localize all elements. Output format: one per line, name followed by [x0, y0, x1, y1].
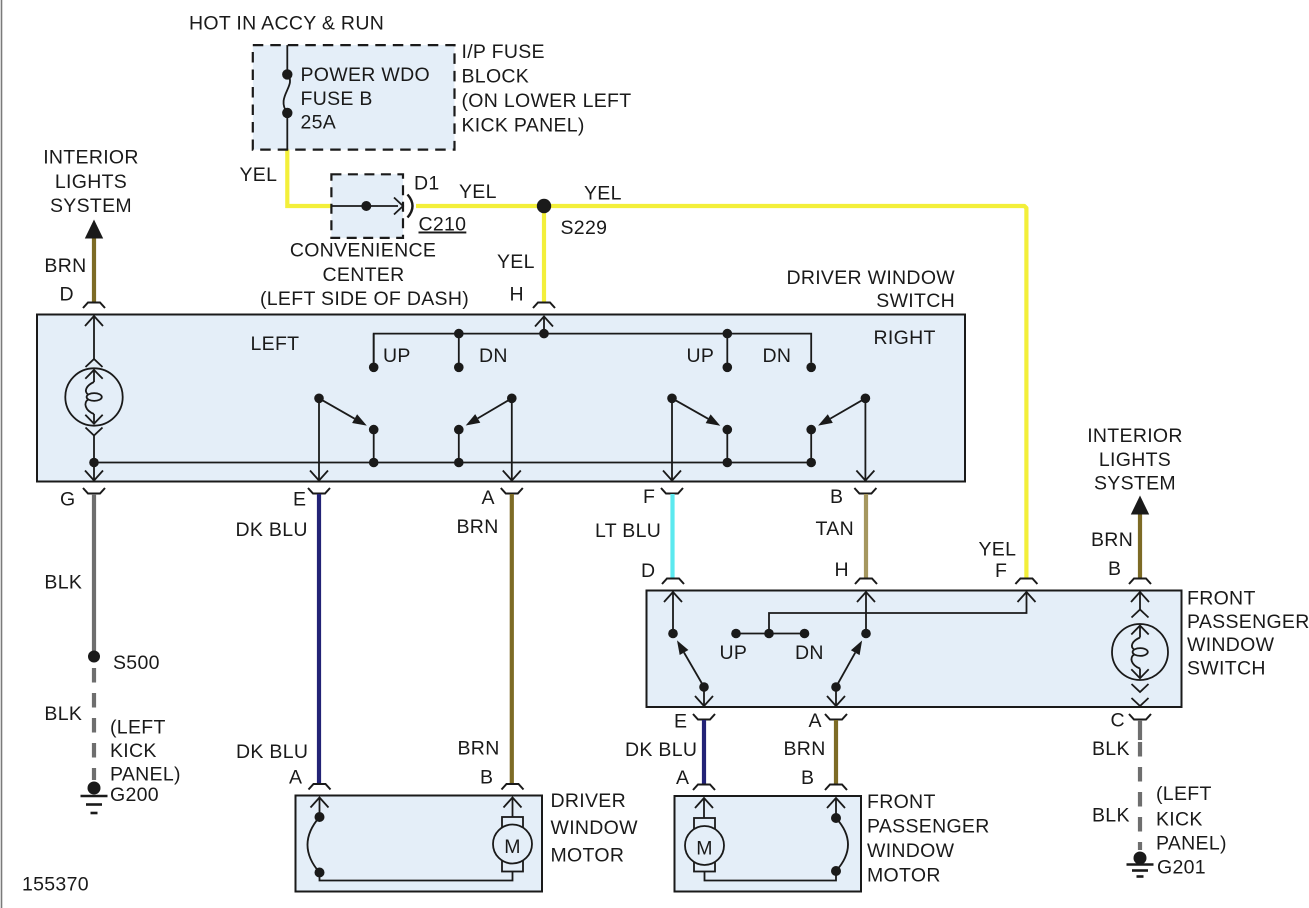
- pin B connector hat (passenger motor): [825, 785, 847, 791]
- switch SW2 throw dot: [454, 425, 464, 435]
- switch SW1 wire to pin E: [318, 398, 320, 479]
- pin C connector hat (passenger switch bottom): [1129, 714, 1151, 720]
- wire LT BLU driver switch pin F to passenger switch pin D: [670, 494, 674, 578]
- pin G connector hat (driver switch bottom): [83, 488, 105, 494]
- svg-text:(LEFT: (LEFT: [110, 717, 166, 739]
- pin H connector hat (passenger switch top): [855, 579, 877, 585]
- pin F connector hat (passenger switch top): [1015, 579, 1037, 585]
- pin A wire to motor M2: [703, 798, 705, 818]
- pin F entry arrow: [1018, 592, 1036, 602]
- off-page arrow to interior lights system (right): [1131, 496, 1149, 515]
- svg-text:LIGHTS: LIGHTS: [55, 171, 127, 193]
- motor M2 circle: [685, 826, 724, 865]
- switch SW3 wire to pin F: [671, 398, 673, 479]
- svg-text:(ON LOWER LEFT: (ON LOWER LEFT: [462, 90, 632, 112]
- switch SW2 wire to pin A: [511, 398, 513, 479]
- left DN contact drop wire: [458, 334, 460, 368]
- pin B wire to motor M1: [512, 798, 514, 818]
- switch SW2 throw wire to ground bus: [458, 430, 460, 463]
- pin B connector hat (driver motor): [502, 784, 524, 790]
- svg-text:MOTOR: MOTOR: [867, 865, 941, 887]
- svg-text:DN: DN: [795, 642, 824, 664]
- pin A exit arrow: [827, 696, 845, 706]
- lamp filament loop (passenger): [1133, 648, 1148, 656]
- lamp filament loop: [87, 393, 102, 401]
- pin D entry arrow: [664, 592, 682, 602]
- pin D wire to contact: [672, 592, 674, 634]
- svg-text:KICK: KICK: [1156, 809, 1203, 831]
- svg-text:HOT IN ACCY & RUN: HOT IN ACCY & RUN: [189, 13, 384, 35]
- svg-text:YEL: YEL: [459, 181, 497, 203]
- svg-text:BRN: BRN: [457, 516, 499, 538]
- switch SW5 arm (passenger left): [684, 653, 704, 688]
- wire BLK dashed S500 to G200: [92, 668, 96, 780]
- svg-text:BLK: BLK: [1092, 738, 1130, 760]
- switch SW1 pivot dot (pin E): [314, 394, 324, 404]
- connector C210 female socket arc: [408, 195, 413, 218]
- DN contact dot (passenger): [800, 629, 810, 639]
- svg-text:G200: G200: [110, 784, 159, 806]
- UP/DN contact bar wire (passenger): [736, 633, 805, 635]
- brush dot lower (driver motor): [315, 868, 325, 878]
- off-page arrow to interior lights system (left): [85, 220, 103, 239]
- junction dot SW4 on ground bus: [806, 458, 816, 468]
- pin E connector hat (driver switch bottom): [308, 488, 330, 494]
- lamp internal wire lower: [93, 414, 95, 424]
- motor M2 armature rectangle: [694, 818, 715, 872]
- lamp internal up arrowhead: [85, 370, 102, 379]
- pin B connector hat (passenger switch top): [1129, 579, 1151, 585]
- svg-text:CONVENIENCE: CONVENIENCE: [290, 240, 436, 262]
- pin B exit arrow: [856, 471, 874, 481]
- front passenger window motor box: [675, 796, 862, 892]
- pin H feed wire with entry arrow: [543, 317, 545, 334]
- svg-text:KICK: KICK: [110, 740, 157, 762]
- ground G200 bar 3: [91, 812, 98, 815]
- svg-text:A: A: [289, 767, 302, 789]
- svg-text:25A: 25A: [301, 112, 337, 134]
- wire pin B to lamp: [1139, 592, 1141, 610]
- svg-text:WINDOW: WINDOW: [867, 840, 955, 862]
- svg-text:C210: C210: [419, 214, 467, 236]
- svg-text:SWITCH: SWITCH: [1187, 658, 1266, 680]
- switch SW5 wire to pin E with exit arrow: [703, 687, 705, 705]
- switch SW4 wire to pin B: [864, 398, 866, 479]
- svg-text:UP: UP: [383, 345, 411, 367]
- lamp feed wire from pin D: [93, 316, 95, 360]
- supply bus wire inside driver switch: [374, 334, 812, 363]
- pin C exit chevron: [1132, 698, 1149, 706]
- ground bus wire inside driver switch: [94, 462, 811, 464]
- driver window switch box: [37, 315, 965, 482]
- svg-text:CENTER: CENTER: [323, 264, 405, 286]
- svg-text:PASSENGER: PASSENGER: [867, 816, 990, 838]
- svg-text:SYSTEM: SYSTEM: [50, 195, 132, 217]
- lamp internal down arrowhead (passenger): [1131, 669, 1148, 678]
- pin G exit arrow: [85, 471, 103, 481]
- UP contact dot (passenger): [731, 629, 741, 639]
- svg-text:A: A: [676, 767, 689, 789]
- chevron below lamp: [86, 428, 103, 436]
- svg-text:I/P FUSE: I/P FUSE: [462, 41, 545, 63]
- lamp filament upper curl: [86, 382, 94, 395]
- chevron below lamp (passenger): [1132, 684, 1149, 692]
- svg-text:DN: DN: [479, 345, 508, 367]
- svg-text:DRIVER: DRIVER: [551, 790, 626, 812]
- svg-text:S500: S500: [113, 652, 160, 674]
- svg-text:SWITCH: SWITCH: [876, 290, 955, 312]
- pin E exit arrow: [310, 471, 328, 481]
- svg-text:YEL: YEL: [979, 539, 1017, 561]
- wire BRN passenger switch pin A to passenger motor pin B: [834, 720, 838, 784]
- svg-text:C: C: [1111, 710, 1125, 732]
- pin D connector hat (passenger switch top): [662, 579, 684, 585]
- ground G201 bar 1: [1127, 863, 1154, 866]
- svg-text:PANEL): PANEL): [110, 764, 181, 786]
- svg-text:YEL: YEL: [497, 251, 535, 273]
- wire YEL: S229 right then down to passenger switch pin F: [544, 206, 1026, 578]
- svg-text:B: B: [480, 767, 493, 789]
- lamp internal wire upper: [93, 370, 95, 383]
- svg-text:BLK: BLK: [1092, 805, 1130, 827]
- commutator arc (passenger motor): [836, 818, 848, 871]
- front passenger window switch box: [647, 591, 1182, 708]
- switch SW3 arm: [672, 398, 708, 419]
- svg-text:INTERIOR: INTERIOR: [1087, 425, 1183, 447]
- switch SW6 pivot dot: [831, 682, 841, 692]
- pin D entry arrow: [85, 316, 103, 326]
- pin A connector hat (driver motor): [309, 784, 331, 790]
- svg-text:E: E: [674, 711, 687, 733]
- wire inside convenience center: [331, 205, 398, 207]
- svg-text:INTERIOR: INTERIOR: [43, 147, 139, 169]
- pin B entry arrow (driver motor): [504, 798, 522, 808]
- switch SW1 throw dot: [369, 425, 379, 435]
- lamp filament upper curl (passenger): [1132, 638, 1140, 650]
- contact dot H: [861, 629, 871, 639]
- svg-text:FRONT: FRONT: [867, 791, 936, 813]
- svg-text:F: F: [995, 560, 1007, 582]
- center junction dot UP/DN bar: [764, 629, 774, 639]
- wire BRN to interior lights (left): [92, 239, 96, 303]
- ground G201 dot: [1134, 852, 1147, 865]
- wire YEL: fuse output down then right to convenience center: [287, 150, 331, 207]
- junction dot lamp-bus: [89, 458, 99, 468]
- switch SW2 arm arrowhead: [466, 414, 481, 425]
- svg-text:FUSE B: FUSE B: [301, 88, 373, 110]
- pin H connector hat (driver switch top): [533, 303, 555, 309]
- driver window motor box: [296, 796, 543, 892]
- svg-text:UP: UP: [687, 345, 715, 367]
- junction dot UP-right on supply bus: [723, 329, 733, 339]
- svg-text:G201: G201: [1157, 857, 1206, 879]
- svg-text:WINDOW: WINDOW: [1187, 634, 1275, 656]
- svg-text:BRN: BRN: [1091, 529, 1133, 551]
- svg-text:A: A: [482, 487, 495, 509]
- wire DK BLU driver switch pin E to driver motor pin A: [317, 494, 321, 783]
- wire YEL: connector C210 to S229 junction: [416, 204, 544, 208]
- switch SW4 throw dot: [806, 425, 816, 435]
- fuse top terminal dot: [282, 69, 292, 79]
- switch SW2 pivot dot (pin A): [507, 394, 517, 404]
- pin B wire to brush dot: [835, 798, 837, 818]
- wire BLK dashed to G201: [1138, 742, 1142, 850]
- svg-text:BRN: BRN: [44, 255, 86, 277]
- svg-text:DRIVER WINDOW: DRIVER WINDOW: [786, 267, 955, 289]
- switch SW3 pivot dot (pin F): [667, 394, 677, 404]
- svg-text:BRN: BRN: [458, 738, 500, 760]
- pin A connector hat (passenger motor): [693, 785, 715, 791]
- svg-text:B: B: [830, 486, 843, 508]
- svg-text:H: H: [835, 559, 849, 581]
- svg-text:PASSENGER: PASSENGER: [1187, 611, 1309, 633]
- pin B entry arrow (passenger motor): [827, 798, 845, 808]
- pin H entry arrow: [535, 317, 553, 327]
- svg-text:YEL: YEL: [240, 164, 278, 186]
- svg-text:MOTOR: MOTOR: [551, 845, 625, 867]
- switch SW6 wire to pin A with exit arrow: [835, 687, 837, 705]
- lamp filament lower curl: [85, 399, 94, 414]
- ground G200 bar 2: [86, 803, 102, 806]
- pin B entry arrow (lamp feed): [1131, 592, 1149, 602]
- svg-text:G: G: [60, 489, 75, 511]
- lamp L2 illumination bulb circle (passenger): [1112, 624, 1168, 680]
- pin H wire to contact: [865, 592, 867, 634]
- junction dot H on supply bus: [539, 329, 549, 339]
- pin A connector hat (passenger switch bottom): [825, 714, 847, 720]
- left UP contact drop wire: [373, 334, 375, 368]
- switch SW4 throw wire to ground bus: [810, 430, 812, 463]
- svg-text:LIGHTS: LIGHTS: [1099, 449, 1171, 471]
- arrowhead D1 male terminal: [394, 198, 403, 215]
- svg-text:M: M: [696, 838, 713, 860]
- ground G201 bar 3: [1137, 875, 1144, 878]
- junction dot SW1 on ground bus: [369, 458, 379, 468]
- svg-text:KICK PANEL): KICK PANEL): [462, 115, 585, 137]
- fuse bottom terminal dot: [282, 108, 292, 118]
- splice S500 dot: [88, 651, 100, 663]
- fuse element squiggle: [284, 74, 291, 113]
- right UP contact drop wire: [726, 334, 728, 368]
- fuse F wire top lead: [286, 45, 288, 70]
- wire BLK passenger switch pin C down: [1138, 720, 1142, 740]
- switch SW1 arm: [319, 398, 355, 418]
- pin F connector hat (driver switch bottom): [661, 488, 683, 494]
- page left border line: [1, 0, 3, 908]
- lamp internal wire lower (passenger): [1139, 669, 1141, 679]
- svg-text:TAN: TAN: [816, 518, 854, 540]
- switch SW6 arm (passenger right): [836, 653, 855, 687]
- junction dot SW3 on ground bus: [723, 458, 733, 468]
- pin A entry arrow (driver motor): [311, 798, 329, 808]
- svg-text:DK BLU: DK BLU: [236, 519, 308, 541]
- switch SW6 arm arrowhead: [851, 641, 862, 656]
- pin E connector hat (passenger switch bottom): [693, 714, 715, 720]
- wire DK BLU passenger switch pin E to passenger motor pin A: [702, 720, 706, 784]
- supply wire from UP/DN bar to pin F: [769, 593, 1027, 634]
- svg-text:DK BLU: DK BLU: [625, 739, 697, 761]
- wire BLK driver switch pin G down to S500: [92, 494, 96, 651]
- svg-text:155370: 155370: [22, 874, 89, 896]
- svg-text:YEL: YEL: [584, 183, 622, 205]
- svg-text:D1: D1: [414, 173, 440, 195]
- wire brush to motor M1: [320, 872, 513, 881]
- switch SW5 pivot dot: [699, 682, 709, 692]
- pin D connector hat (driver switch top): [83, 303, 105, 309]
- svg-text:BLK: BLK: [44, 703, 82, 725]
- lamp internal wire upper (passenger): [1139, 626, 1141, 638]
- ground G200 bar 1: [81, 795, 108, 798]
- svg-text:E: E: [293, 489, 306, 511]
- pin B connector hat (driver switch bottom): [854, 488, 876, 494]
- svg-text:FRONT: FRONT: [1187, 588, 1256, 610]
- lamp filament lower curl (passenger): [1131, 654, 1140, 668]
- svg-text:B: B: [1108, 558, 1121, 580]
- svg-text:LEFT: LEFT: [251, 333, 300, 355]
- svg-text:POWER WDO: POWER WDO: [301, 64, 430, 86]
- svg-text:BLK: BLK: [44, 572, 82, 594]
- chevron above lamp (passenger): [1132, 610, 1149, 618]
- svg-text:(LEFT SIDE OF DASH): (LEFT SIDE OF DASH): [260, 288, 469, 310]
- switch SW4 pivot dot (pin B): [861, 394, 871, 404]
- pin E exit arrow: [695, 696, 713, 706]
- brush dot upper (passenger motor): [831, 813, 841, 823]
- brush dot upper (driver motor): [315, 812, 325, 822]
- pin A wire to brush dot: [319, 798, 321, 818]
- switch SW1 arm arrowhead: [352, 414, 367, 425]
- svg-text:H: H: [510, 284, 524, 306]
- svg-text:SYSTEM: SYSTEM: [1094, 473, 1176, 495]
- svg-text:S229: S229: [561, 217, 608, 239]
- pin A connector hat (driver switch bottom): [501, 488, 523, 494]
- switch SW1 throw wire to ground bus: [373, 430, 375, 463]
- wire BRN to interior lights (right): [1138, 515, 1142, 579]
- svg-text:M: M: [504, 836, 521, 858]
- switch SW3 throw wire to ground bus: [726, 430, 728, 463]
- contact dot D: [668, 629, 678, 639]
- svg-text:BRN: BRN: [784, 738, 826, 760]
- switch SW3 arm arrowhead: [706, 414, 721, 425]
- motor M1 circle: [493, 825, 532, 864]
- left UP contact dot: [369, 363, 379, 373]
- fuse block I/P box (dashed, light blue): [253, 45, 455, 150]
- svg-text:(LEFT: (LEFT: [1156, 783, 1212, 805]
- wire TAN driver switch pin B to passenger switch pin H: [864, 494, 868, 578]
- ground G200 dot: [88, 782, 101, 795]
- junction dot DN-left on supply bus: [454, 329, 464, 339]
- commutator arc (driver motor): [308, 817, 320, 873]
- svg-text:PANEL): PANEL): [1156, 833, 1227, 855]
- junction dot inside convenience center: [361, 201, 371, 211]
- svg-text:D: D: [60, 284, 74, 306]
- junction dot SW2 on ground bus: [454, 458, 464, 468]
- pin A exit arrow: [503, 471, 521, 481]
- svg-text:B: B: [801, 767, 814, 789]
- svg-text:F: F: [643, 486, 655, 508]
- pin A entry arrow (passenger motor): [695, 798, 713, 808]
- wire YEL: S229 down to driver switch pin H: [542, 206, 546, 303]
- switch SW4 arm: [830, 398, 865, 418]
- switch SW2 arm: [478, 398, 512, 418]
- right UP contact dot: [723, 363, 733, 373]
- right DN contact dot: [806, 363, 816, 373]
- svg-text:WINDOW: WINDOW: [551, 817, 639, 839]
- switch SW5 arm arrowhead: [677, 640, 688, 655]
- svg-text:DN: DN: [763, 345, 792, 367]
- left DN contact dot: [454, 363, 464, 373]
- pin H entry arrow: [857, 592, 875, 602]
- convenience center dashed box: [331, 174, 403, 238]
- svg-text:A: A: [809, 710, 822, 732]
- brush dot lower (passenger motor): [831, 866, 841, 876]
- lamp internal up arrowhead (passenger): [1131, 626, 1148, 635]
- chevron above lamp: [86, 359, 103, 367]
- svg-text:DK BLU: DK BLU: [236, 741, 308, 763]
- lamp internal down arrowhead: [85, 415, 102, 424]
- splice S229 junction dot: [537, 199, 551, 213]
- fuse F wire bottom lead: [286, 113, 288, 150]
- svg-text:BLOCK: BLOCK: [462, 66, 530, 88]
- wire lamp to ground bus: [93, 436, 95, 480]
- ground G201 bar 2: [1132, 869, 1148, 872]
- switch SW3 throw dot: [723, 425, 733, 435]
- svg-text:LT BLU: LT BLU: [595, 520, 661, 542]
- svg-text:D: D: [641, 560, 655, 582]
- lamp L1 illumination bulb circle (driver): [65, 368, 122, 425]
- wire BRN driver switch pin A to driver motor pin B: [510, 494, 514, 783]
- wire brush to motor M2: [705, 871, 837, 881]
- svg-text:UP: UP: [720, 642, 748, 664]
- switch SW4 arm arrowhead: [818, 414, 833, 425]
- svg-text:RIGHT: RIGHT: [874, 327, 936, 349]
- motor M1 armature rectangle: [502, 817, 523, 872]
- pin F exit arrow: [663, 471, 681, 481]
